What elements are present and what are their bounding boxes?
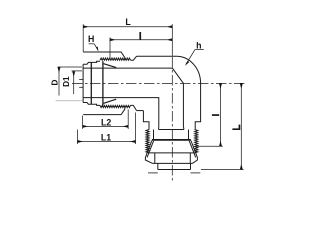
svg-text:D: D <box>50 80 59 86</box>
svg-text:L2: L2 <box>101 118 111 128</box>
svg-text:L1: L1 <box>101 133 111 143</box>
svg-text:H: H <box>88 34 94 44</box>
svg-text:L: L <box>125 17 131 27</box>
svg-text:D1: D1 <box>62 76 71 87</box>
svg-text:h: h <box>196 40 201 50</box>
